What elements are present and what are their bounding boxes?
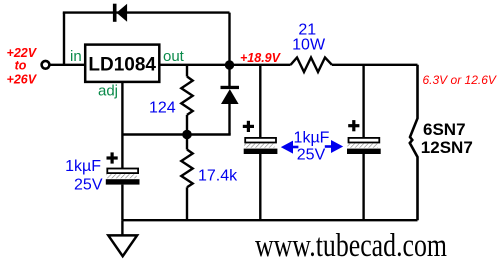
plus sign C2 (243, 121, 254, 132)
wire: top bypass rail (63, 11, 230, 13)
svg-text:www.tubecad.com: www.tubecad.com (255, 228, 447, 263)
svg-text:+18.9V: +18.9V (240, 51, 282, 65)
wire: input terminal to regulator in pin (48, 64, 85, 66)
arrow to C3 (325, 140, 343, 153)
input terminal circle (42, 61, 50, 69)
svg-text:1kµF: 1kµF (65, 158, 101, 175)
wire: adj pin down (121, 82, 123, 135)
wire: vertical down from bypass rail to output node (228, 13, 230, 65)
wire: adj horizontal rail (122, 133, 230, 135)
wire: vertical up from input wire to bypass diode rail (63, 13, 65, 65)
diode D2 (adj to out, cathode up) (221, 65, 240, 135)
capacitor C2 (first filter cap) (244, 65, 278, 220)
svg-text:10W: 10W (292, 36, 326, 53)
node: output junction dot (225, 60, 234, 69)
node: adj junction dot (182, 130, 192, 140)
ground symbol (108, 235, 137, 256)
svg-text:in: in (70, 48, 82, 65)
arrow to C2 (281, 141, 299, 154)
capacitor C3 (second filter cap) (347, 65, 381, 220)
plus sign C1 (107, 152, 118, 163)
svg-text:25V: 25V (297, 146, 326, 163)
wire: right column with heater filament kink (410, 65, 418, 220)
resistor R2 17.4k (adj to ground) (181, 135, 192, 221)
capacitor C1 1kuF 25V (adj bypass) (106, 135, 140, 221)
svg-text:+26V: +26V (7, 73, 38, 87)
wire: out pin to right column (159, 64, 290, 66)
svg-text:1kµF: 1kµF (294, 129, 330, 146)
diode D1 (bypass, cathode left) (113, 4, 127, 22)
svg-text:25V: 25V (74, 176, 103, 193)
resistor R1 124 (out to adj) (181, 65, 192, 135)
svg-text:124: 124 (149, 99, 176, 116)
svg-text:to: to (15, 59, 27, 73)
svg-text:6.3V or 12.6V: 6.3V or 12.6V (423, 73, 497, 87)
wire: bottom ground rail (122, 219, 417, 221)
plus sign C3 (348, 120, 359, 131)
label: 1kuF 25V (shared, with arrows) (294, 129, 330, 163)
label: 1kuF 25V (left) (65, 158, 103, 194)
svg-text:adj: adj (98, 83, 118, 100)
label: +22V to +26V (7, 46, 38, 87)
svg-text:17.4k: 17.4k (198, 168, 238, 185)
regulator U1 LD1084 box (85, 45, 159, 82)
svg-text:out: out (163, 48, 185, 65)
svg-text:12SN7: 12SN7 (421, 138, 473, 157)
svg-text:LD1084: LD1084 (88, 55, 156, 76)
resistor R3 21 10W (series dropper) (291, 58, 332, 73)
svg-text:6SN7: 6SN7 (423, 120, 466, 139)
wire: ground stub (121, 220, 123, 236)
